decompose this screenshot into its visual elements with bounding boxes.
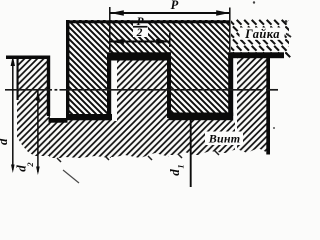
svg-text:d: d (0, 138, 10, 145)
svg-text:d: d (167, 169, 182, 176)
svg-text:2: 2 (136, 27, 143, 39)
svg-text:1: 1 (176, 164, 186, 168)
svg-text:2: 2 (25, 162, 35, 168)
svg-text:Гайка: Гайка (244, 27, 280, 41)
svg-text:P: P (171, 0, 179, 12)
svg-text:Винт: Винт (208, 132, 240, 146)
